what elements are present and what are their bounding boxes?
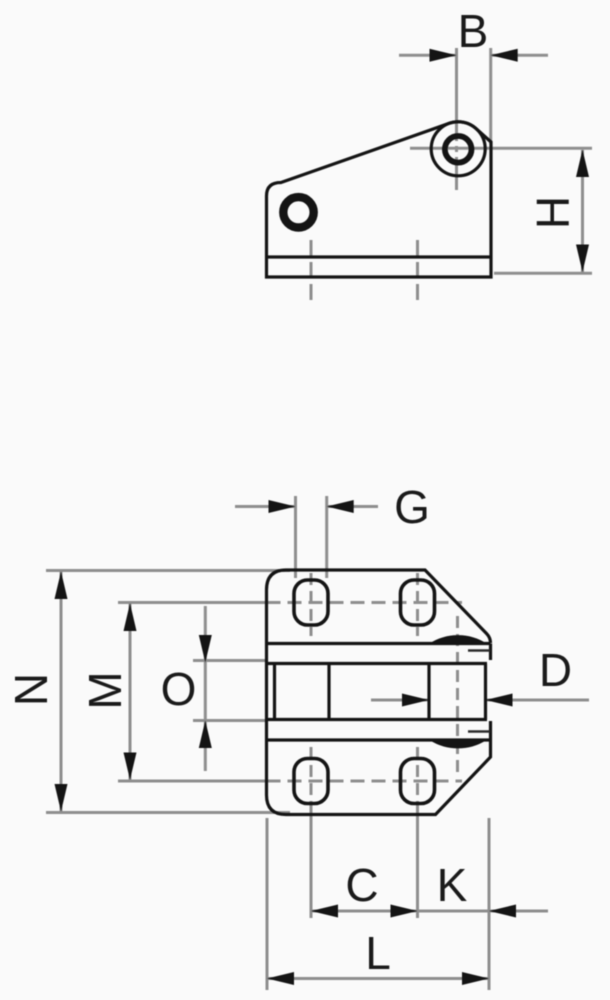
svg-text:L: L xyxy=(365,927,391,979)
svg-text:O: O xyxy=(161,663,197,715)
svg-text:M: M xyxy=(79,671,131,709)
svg-text:N: N xyxy=(5,673,57,706)
svg-text:K: K xyxy=(437,859,468,911)
svg-text:D: D xyxy=(539,644,572,696)
svg-text:C: C xyxy=(345,859,378,911)
svg-text:G: G xyxy=(394,481,430,533)
svg-text:H: H xyxy=(527,196,579,229)
svg-text:B: B xyxy=(458,5,489,57)
